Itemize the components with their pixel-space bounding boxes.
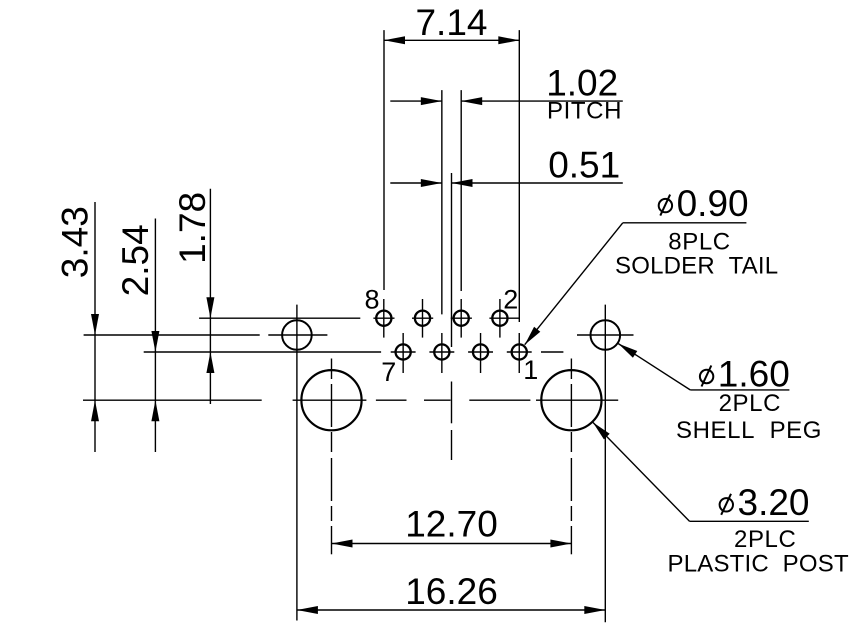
svg-text:PITCH: PITCH (547, 97, 622, 124)
svg-text:1.78: 1.78 (172, 192, 213, 264)
svg-text:2: 2 (503, 285, 518, 315)
svg-text:7.14: 7.14 (415, 2, 487, 43)
svg-text:3.20: 3.20 (738, 482, 810, 523)
svg-text:8PLC: 8PLC (668, 228, 730, 255)
svg-text:2.54: 2.54 (115, 224, 156, 296)
svg-text:SHELL PEG: SHELL PEG (676, 417, 822, 444)
svg-text:16.26: 16.26 (405, 571, 498, 612)
svg-text:PLASTIC POST: PLASTIC POST (668, 550, 849, 577)
svg-text:7: 7 (381, 357, 396, 387)
svg-text:1.60: 1.60 (718, 354, 790, 395)
svg-text:2PLC: 2PLC (734, 526, 796, 553)
svg-text:3.43: 3.43 (54, 206, 95, 278)
svg-text:1: 1 (523, 355, 538, 385)
svg-text:8: 8 (365, 285, 380, 315)
svg-text:0.90: 0.90 (677, 183, 749, 224)
svg-text:12.70: 12.70 (405, 504, 498, 545)
svg-text:0.51: 0.51 (548, 145, 620, 186)
svg-text:2PLC: 2PLC (719, 390, 781, 417)
svg-text:SOLDER TAIL: SOLDER TAIL (615, 253, 778, 280)
